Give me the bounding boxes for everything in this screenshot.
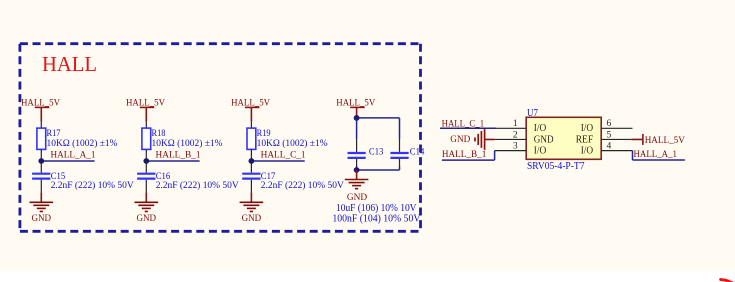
svg-text:10KΩ (1002) ±1%: 10KΩ (1002) ±1% xyxy=(47,138,118,149)
svg-text:GND: GND xyxy=(534,134,554,145)
svg-text:GND: GND xyxy=(450,135,470,145)
svg-text:HALL_A_1: HALL_A_1 xyxy=(634,150,678,160)
svg-text:2.2nF (222) 10% 50V: 2.2nF (222) 10% 50V xyxy=(51,180,134,191)
svg-text:3: 3 xyxy=(513,142,518,152)
svg-text:10KΩ (1002) ±1%: 10KΩ (1002) ±1% xyxy=(152,138,223,149)
svg-text:C13: C13 xyxy=(369,147,384,158)
svg-text:100nF (104) 10% 50V: 100nF (104) 10% 50V xyxy=(332,213,421,224)
svg-text:GND: GND xyxy=(137,214,157,224)
svg-text:5: 5 xyxy=(607,130,612,140)
svg-text:HALL_A_1: HALL_A_1 xyxy=(51,150,96,160)
svg-text:GND: GND xyxy=(32,214,52,224)
svg-text:I/O: I/O xyxy=(581,146,594,157)
svg-text:1: 1 xyxy=(513,119,518,129)
svg-text:HALL_B_1: HALL_B_1 xyxy=(156,150,201,160)
svg-text:U7: U7 xyxy=(527,108,538,119)
svg-text:SRV05-4-P-T7: SRV05-4-P-T7 xyxy=(527,161,585,172)
svg-text:10KΩ (1002) ±1%: 10KΩ (1002) ±1% xyxy=(257,138,328,149)
svg-text:I/O: I/O xyxy=(534,123,547,134)
svg-text:I/O: I/O xyxy=(581,123,594,134)
svg-text:GND: GND xyxy=(347,193,367,203)
svg-text:HALL_C_1: HALL_C_1 xyxy=(261,150,306,160)
svg-text:6: 6 xyxy=(607,119,612,129)
svg-text:HALL: HALL xyxy=(42,52,97,76)
svg-text:2: 2 xyxy=(513,130,518,140)
svg-text:I/O: I/O xyxy=(534,146,547,157)
svg-text:HALL_C_1: HALL_C_1 xyxy=(442,120,485,130)
svg-text:2.2nF (222) 10% 50V: 2.2nF (222) 10% 50V xyxy=(261,180,344,191)
svg-text:REF: REF xyxy=(576,134,594,145)
svg-text:HALL_B_1: HALL_B_1 xyxy=(442,150,487,160)
svg-text:10uF (106) 10% 10V: 10uF (106) 10% 10V xyxy=(336,203,417,214)
svg-text:4: 4 xyxy=(607,142,612,152)
svg-text:C14: C14 xyxy=(410,147,425,158)
svg-text:GND: GND xyxy=(242,214,262,224)
svg-text:2.2nF (222) 10% 50V: 2.2nF (222) 10% 50V xyxy=(156,180,239,191)
svg-text:HALL_5V: HALL_5V xyxy=(645,136,685,146)
